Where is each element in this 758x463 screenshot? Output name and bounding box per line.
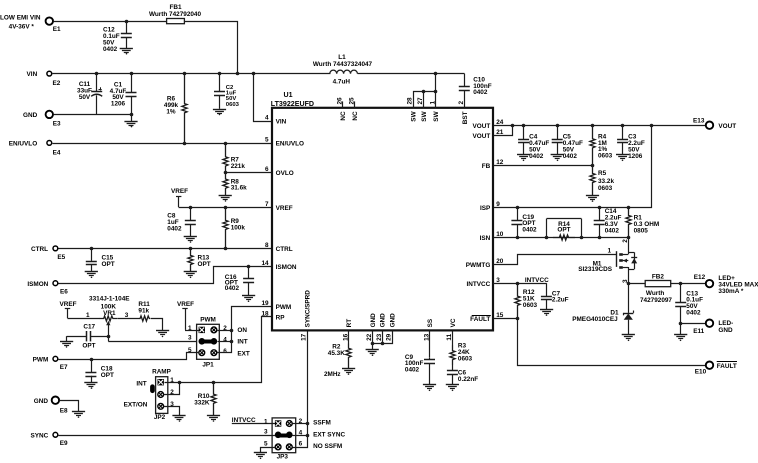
wire SYNC/SPRD net xyxy=(293,331,308,448)
svg-text:4V-36V *: 4V-36V * xyxy=(9,23,35,30)
pin 17 SYNC/SPRD xyxy=(301,290,312,341)
junction SW bus 27 xyxy=(422,90,426,94)
svg-text:1206: 1206 xyxy=(628,153,643,160)
svg-text:1: 1 xyxy=(188,325,192,332)
pin 2 BST xyxy=(458,101,469,125)
wire OVLO pin xyxy=(226,172,273,174)
svg-text:21: 21 xyxy=(496,129,504,136)
node VREF label xyxy=(171,188,188,207)
wire SW bus xyxy=(414,92,436,109)
capacitor C7 xyxy=(541,283,569,309)
junction C5 xyxy=(556,124,560,128)
pin 26 NC xyxy=(336,97,347,121)
svg-text:NC: NC xyxy=(352,111,359,121)
wire JP1 common to PWM pin xyxy=(218,307,273,353)
svg-text:EN/UVLO: EN/UVLO xyxy=(9,140,37,147)
junction R13 top xyxy=(189,247,193,251)
svg-text:JP2: JP2 xyxy=(154,414,166,421)
svg-text:4.7uH: 4.7uH xyxy=(333,79,351,86)
svg-text:ISN: ISN xyxy=(480,235,491,242)
svg-text:E1: E1 xyxy=(53,26,61,33)
terminal E7 xyxy=(33,356,68,370)
jumper JP1 pin 1 xyxy=(188,325,205,333)
resistor R11 xyxy=(138,301,150,321)
svg-text:19: 19 xyxy=(261,300,269,307)
junction R6 top xyxy=(183,72,187,76)
jumper JP1 pin 5 xyxy=(188,347,205,356)
wire JP2 pin2 up xyxy=(164,383,180,395)
resistor R1 xyxy=(626,207,659,237)
svg-text:PWM: PWM xyxy=(200,317,216,324)
svg-text:E2: E2 xyxy=(53,80,61,87)
node INTVCC pin3 xyxy=(493,277,549,284)
wire JP3 pin5 ground xyxy=(261,448,276,453)
svg-text:E6: E6 xyxy=(60,289,68,296)
svg-text:14: 14 xyxy=(261,260,269,267)
node VREF label JP1 xyxy=(177,301,199,331)
svg-text:JP3: JP3 xyxy=(277,454,289,461)
svg-text:LOW EMI VIN: LOW EMI VIN xyxy=(0,15,41,22)
pin 15 FAULT xyxy=(470,312,504,323)
jumper JP3 shunt pins 3-4 xyxy=(264,429,303,439)
svg-text:0402: 0402 xyxy=(522,227,537,234)
svg-text:0603: 0603 xyxy=(598,152,613,159)
junction R12 bottom xyxy=(516,317,520,321)
svg-text:0402: 0402 xyxy=(686,310,701,317)
svg-text:VREF: VREF xyxy=(60,301,77,308)
junction C4 xyxy=(522,124,526,128)
junction R4 xyxy=(591,124,595,128)
ground C1/GND row xyxy=(124,122,137,128)
node VREF label pot xyxy=(60,301,77,318)
ground D1 xyxy=(622,335,635,342)
svg-text:2: 2 xyxy=(223,325,227,332)
svg-text:E10: E10 xyxy=(695,369,707,376)
svg-text:0.22nF: 0.22nF xyxy=(458,376,478,383)
wire EN/UVLO row xyxy=(53,143,273,145)
wire L1 to SW xyxy=(358,73,465,75)
ground JP2 pin3 xyxy=(172,416,185,422)
wire VOUT rail xyxy=(494,125,706,127)
wire R11 to ground xyxy=(151,319,163,331)
capacitor C10 xyxy=(459,74,492,108)
terminal E13 xyxy=(693,117,736,130)
junction pin21 xyxy=(511,124,515,128)
junction C14 bottom xyxy=(598,236,602,240)
svg-text:INTVCC: INTVCC xyxy=(467,281,491,288)
junction C15 top xyxy=(90,247,94,251)
ground C8 xyxy=(184,237,197,243)
wire FB row xyxy=(494,165,593,167)
svg-text:23: 23 xyxy=(376,333,383,341)
svg-text:SSFM: SSFM xyxy=(313,419,331,426)
junction R14 right xyxy=(580,236,584,240)
ground C9 xyxy=(423,385,436,392)
svg-text:VC: VC xyxy=(450,318,457,327)
wire SW pin1 xyxy=(435,74,437,109)
jumper JP3 pin 6 xyxy=(286,441,302,450)
svg-text:0402: 0402 xyxy=(167,225,182,232)
capacitor C17 xyxy=(67,323,109,349)
ground C17 xyxy=(60,342,73,348)
label JP3 modes xyxy=(313,419,345,450)
pin 28 SW xyxy=(407,97,418,122)
wire ISP row xyxy=(494,126,652,208)
wire wiper down xyxy=(108,336,196,341)
junction C19 bottom xyxy=(516,236,520,240)
diode D1 PMEG4010CEJ xyxy=(572,284,633,335)
ground C13 xyxy=(674,335,687,342)
svg-text:17: 17 xyxy=(301,333,308,341)
svg-text:INTVCC: INTVCC xyxy=(525,277,549,284)
wire drain to FB2 xyxy=(629,283,646,285)
wire FAULT net xyxy=(494,319,706,366)
svg-text:E13: E13 xyxy=(693,117,705,124)
svg-text:91k: 91k xyxy=(138,308,149,315)
jumper JP1 pin 2 xyxy=(211,325,227,333)
junction R9 bottom xyxy=(224,247,228,251)
junction R6 bottom xyxy=(183,142,187,146)
svg-text:0402: 0402 xyxy=(529,153,544,160)
svg-text:OVLO: OVLO xyxy=(276,170,294,177)
ground IC GND pins xyxy=(366,350,379,357)
junction JP3 pin4 xyxy=(306,434,310,438)
svg-text:1: 1 xyxy=(170,377,174,384)
ferrite bead FB1 xyxy=(149,4,202,24)
wire FB2 to E12 xyxy=(671,283,706,285)
wire PWM row xyxy=(59,353,200,360)
svg-text:2MHz: 2MHz xyxy=(324,371,341,378)
svg-text:FB2: FB2 xyxy=(652,273,665,280)
svg-text:221k: 221k xyxy=(231,163,246,170)
pin 6 OVLO xyxy=(265,166,294,177)
svg-text:SI2319CDS: SI2319CDS xyxy=(578,266,612,273)
capacitor C19 xyxy=(511,207,537,237)
svg-text:332K: 332K xyxy=(194,399,210,406)
jumper JP1 pin 6 xyxy=(211,348,227,356)
ground R10 xyxy=(207,416,220,422)
svg-text:2: 2 xyxy=(170,389,174,396)
svg-text:VOUT: VOUT xyxy=(718,123,736,130)
svg-text:31.6k: 31.6k xyxy=(231,185,247,192)
svg-text:LT3922EUFD: LT3922EUFD xyxy=(271,100,314,108)
ground R5 xyxy=(586,196,599,202)
svg-text:NO SSFM: NO SSFM xyxy=(313,443,342,450)
junction SW node xyxy=(434,72,438,76)
pin 8 CTRL xyxy=(265,242,293,253)
svg-text:U1: U1 xyxy=(284,91,293,99)
junction gnd bus a xyxy=(371,342,375,346)
svg-text:EN/UVLO: EN/UVLO xyxy=(276,141,304,148)
svg-text:PWMTG: PWMTG xyxy=(466,262,491,269)
svg-text:1206: 1206 xyxy=(111,101,126,108)
wire VREF row xyxy=(179,207,273,209)
ground C15 xyxy=(85,272,98,279)
svg-text:NC: NC xyxy=(340,111,347,121)
svg-text:BST: BST xyxy=(462,111,469,124)
resistor R5 xyxy=(590,165,615,195)
wire SW pin27 xyxy=(423,92,425,109)
junction VOUT sense tap xyxy=(650,124,654,128)
svg-text:OPT: OPT xyxy=(82,342,95,349)
pin 22 GND xyxy=(366,313,377,341)
wire GND pin22 xyxy=(372,331,374,350)
pin 3 INTVCC xyxy=(467,277,501,288)
ground C6 xyxy=(446,385,459,392)
wire VIN rail xyxy=(53,73,331,75)
svg-text:EXT SYNC: EXT SYNC xyxy=(313,432,345,439)
svg-text:PMEG4010CEJ: PMEG4010CEJ xyxy=(572,316,618,323)
pin 23 GND xyxy=(376,313,387,341)
wire pot to R11 xyxy=(118,318,140,320)
terminal E4 xyxy=(9,140,61,156)
ground C2 xyxy=(213,110,226,116)
jumper JP2 xyxy=(152,368,172,420)
pin 9 ISP xyxy=(480,201,500,212)
capacitor C12 xyxy=(103,21,132,53)
jumper JP2 pin 3 xyxy=(158,401,175,409)
capacitor C13 xyxy=(675,284,703,324)
svg-text:330mA *: 330mA * xyxy=(718,288,743,295)
junction R7/R8 xyxy=(224,171,228,175)
junction R9 top xyxy=(224,206,228,210)
junction SW bus 1 xyxy=(434,90,438,94)
ferrite bead FB2 xyxy=(640,273,672,304)
ground R2 xyxy=(342,369,355,375)
svg-text:3: 3 xyxy=(188,335,192,342)
resistor R14 xyxy=(547,219,582,241)
svg-text:OPT: OPT xyxy=(557,226,570,233)
wire FB1 to VIN rail xyxy=(185,22,238,74)
wire E1 to FB1 xyxy=(54,21,167,23)
svg-text:25: 25 xyxy=(348,97,355,105)
svg-text:E4: E4 xyxy=(53,150,61,157)
svg-text:RP: RP xyxy=(276,314,286,321)
jumper JP1 shunt pins 3-4 xyxy=(188,335,227,345)
junction VIN pin tap xyxy=(252,72,256,76)
junction C18 top xyxy=(90,358,94,362)
wire GND row xyxy=(54,115,132,122)
capacitor C9 xyxy=(405,354,435,385)
svg-text:0603: 0603 xyxy=(458,355,473,362)
svg-text:GND: GND xyxy=(380,313,387,328)
svg-text:0402: 0402 xyxy=(473,89,488,96)
svg-text:VR1: VR1 xyxy=(103,310,116,317)
wire SYNC row xyxy=(59,435,276,437)
pin 16 RT xyxy=(342,319,353,341)
terminal E10 xyxy=(695,362,737,376)
terminal E8 xyxy=(34,397,68,415)
svg-text:CTRL: CTRL xyxy=(31,246,48,253)
wire GND pin29 xyxy=(383,331,393,344)
svg-text:FB: FB xyxy=(482,163,491,170)
svg-text:OPT: OPT xyxy=(102,261,115,268)
ground C7 xyxy=(540,310,553,316)
svg-text:VIN: VIN xyxy=(276,119,287,126)
wire C13 to ground xyxy=(680,324,682,335)
svg-text:7: 7 xyxy=(265,201,269,208)
pin 21 VOUT xyxy=(473,129,504,140)
wire E11 row xyxy=(681,323,706,325)
svg-text:1: 1 xyxy=(607,248,611,255)
capacitor C2 xyxy=(214,74,240,109)
capacitor C8 xyxy=(167,207,196,236)
svg-text:E7: E7 xyxy=(60,364,68,371)
svg-text:FAULT: FAULT xyxy=(717,363,737,370)
svg-text:RT: RT xyxy=(346,319,353,328)
ground C4 xyxy=(517,155,530,162)
svg-text:1%: 1% xyxy=(166,108,176,115)
junction gnd bus b xyxy=(381,342,385,346)
junction wiper C17 xyxy=(107,335,111,339)
svg-text:8: 8 xyxy=(265,242,269,249)
svg-text:0402: 0402 xyxy=(225,285,240,292)
junction JP3 pin2 xyxy=(306,422,310,426)
svg-text:VREF: VREF xyxy=(177,301,194,308)
ground C3 xyxy=(616,155,629,162)
label JP2 INT xyxy=(136,380,146,387)
pin 25 NC xyxy=(348,97,359,121)
junction C8 top xyxy=(189,206,193,210)
svg-text:E3: E3 xyxy=(53,120,61,127)
terminal E3 xyxy=(23,111,61,128)
svg-text:PWM: PWM xyxy=(33,356,49,363)
junction C2 top xyxy=(218,72,222,76)
pin 11 VC xyxy=(446,318,457,340)
svg-text:28: 28 xyxy=(407,97,414,105)
terminal E11 xyxy=(693,320,733,335)
svg-text:E5: E5 xyxy=(57,254,65,261)
svg-text:GND: GND xyxy=(23,112,38,119)
capacitor C1 xyxy=(110,74,137,115)
junction JP2 net xyxy=(178,381,182,385)
wire ISN row xyxy=(494,237,629,239)
svg-text:FAULT: FAULT xyxy=(470,316,490,323)
svg-text:4: 4 xyxy=(223,337,227,344)
svg-text:SYNC: SYNC xyxy=(31,433,49,440)
wire GND pin23 xyxy=(373,331,383,344)
pin 4 VIN xyxy=(265,115,287,126)
ground R8 xyxy=(219,196,232,202)
label JP1 ON INT EXT xyxy=(237,327,250,357)
svg-text:OPT: OPT xyxy=(198,261,211,268)
svg-text:33.2k: 33.2k xyxy=(598,178,614,185)
junction R10 top xyxy=(212,381,216,385)
svg-text:100k: 100k xyxy=(231,225,246,232)
svg-text:E11: E11 xyxy=(693,328,704,335)
svg-text:OPT: OPT xyxy=(101,372,114,379)
potentiometer VR1 xyxy=(86,296,130,337)
svg-text:CTRL: CTRL xyxy=(276,246,293,253)
resistor R9 xyxy=(223,207,245,248)
svg-text:EXT: EXT xyxy=(237,350,250,357)
svg-text:ON: ON xyxy=(237,327,247,334)
svg-text:Wurth 742792040: Wurth 742792040 xyxy=(149,11,202,18)
pin 20 PWMTG xyxy=(466,258,504,269)
svg-text:JP1: JP1 xyxy=(202,361,214,368)
svg-text:EXT/ON: EXT/ON xyxy=(124,401,148,408)
resistor R10 xyxy=(194,382,216,415)
wire to VIN pin xyxy=(254,74,273,122)
jumper JP3 xyxy=(272,418,296,461)
svg-text:VREF: VREF xyxy=(276,205,293,212)
svg-text:VOUT: VOUT xyxy=(473,133,491,140)
ground R13 xyxy=(184,272,197,279)
svg-text:GND: GND xyxy=(34,398,49,405)
label JP2 EXT/ON xyxy=(124,401,148,408)
junction R7 top xyxy=(224,142,228,146)
svg-text:E8: E8 xyxy=(60,407,68,414)
capacitor C11 xyxy=(77,74,102,115)
ground C5 xyxy=(551,155,564,162)
capacitor C18 xyxy=(85,359,114,383)
svg-text:VOUT: VOUT xyxy=(473,123,491,130)
svg-text:SW: SW xyxy=(410,110,417,121)
svg-text:45.3K: 45.3K xyxy=(328,350,345,357)
jumper JP3 pin 1 xyxy=(264,418,281,426)
wire JP1 pin4 stub xyxy=(218,341,232,343)
wire JP3 pin4 stub xyxy=(293,435,308,437)
ground JP3 xyxy=(254,453,267,460)
svg-text:SYNC/SPRD: SYNC/SPRD xyxy=(304,290,311,328)
svg-text:26: 26 xyxy=(336,97,343,105)
junction C14 top xyxy=(598,206,602,210)
svg-text:3: 3 xyxy=(264,429,268,436)
svg-text:INT: INT xyxy=(237,339,247,346)
terminal E12 xyxy=(694,274,758,295)
svg-text:742792097: 742792097 xyxy=(640,297,672,304)
terminal E1 xyxy=(0,15,61,33)
svg-text:INT: INT xyxy=(136,380,146,387)
svg-text:4: 4 xyxy=(265,115,269,122)
pin 14 ISMON xyxy=(261,260,296,271)
pin 29 GND xyxy=(386,313,397,341)
junction R14 left xyxy=(545,236,549,240)
resistor R3 xyxy=(450,343,473,365)
svg-text:6: 6 xyxy=(299,441,303,448)
svg-text:3314J-1-104E: 3314J-1-104E xyxy=(89,296,130,303)
resistor R13 xyxy=(188,248,211,271)
junction C3 xyxy=(621,124,625,128)
svg-text:Wurth 74437324047: Wurth 74437324047 xyxy=(313,61,373,68)
svg-text:SW: SW xyxy=(421,110,428,121)
svg-text:0402: 0402 xyxy=(405,367,420,374)
terminal E6 xyxy=(27,281,68,296)
svg-text:VIN: VIN xyxy=(27,71,38,78)
pin 13 SS xyxy=(423,318,434,341)
ground R11 xyxy=(156,331,169,338)
svg-text:0402: 0402 xyxy=(563,153,578,160)
svg-text:0402: 0402 xyxy=(605,227,620,234)
svg-text:Wurth: Wurth xyxy=(646,290,664,297)
wire SS lead xyxy=(429,331,431,358)
junction M1 drain node xyxy=(627,282,631,286)
wire C17 ground lead xyxy=(66,336,68,341)
wire RP to RAMP row xyxy=(165,317,273,383)
svg-text:1: 1 xyxy=(86,312,90,319)
pin 24 VOUT xyxy=(473,119,504,130)
transistor M1 Si2319CDS xyxy=(578,237,637,283)
capacitor C14 xyxy=(594,207,622,237)
junction R4/R5 xyxy=(591,164,595,168)
pin 1 SW xyxy=(429,101,440,122)
svg-text:0603: 0603 xyxy=(598,185,613,192)
svg-text:SW: SW xyxy=(433,110,440,121)
svg-text:E9: E9 xyxy=(60,440,68,447)
svg-text:1: 1 xyxy=(264,418,268,425)
wire VREF to pot xyxy=(68,318,100,320)
svg-text:0603: 0603 xyxy=(523,302,538,309)
